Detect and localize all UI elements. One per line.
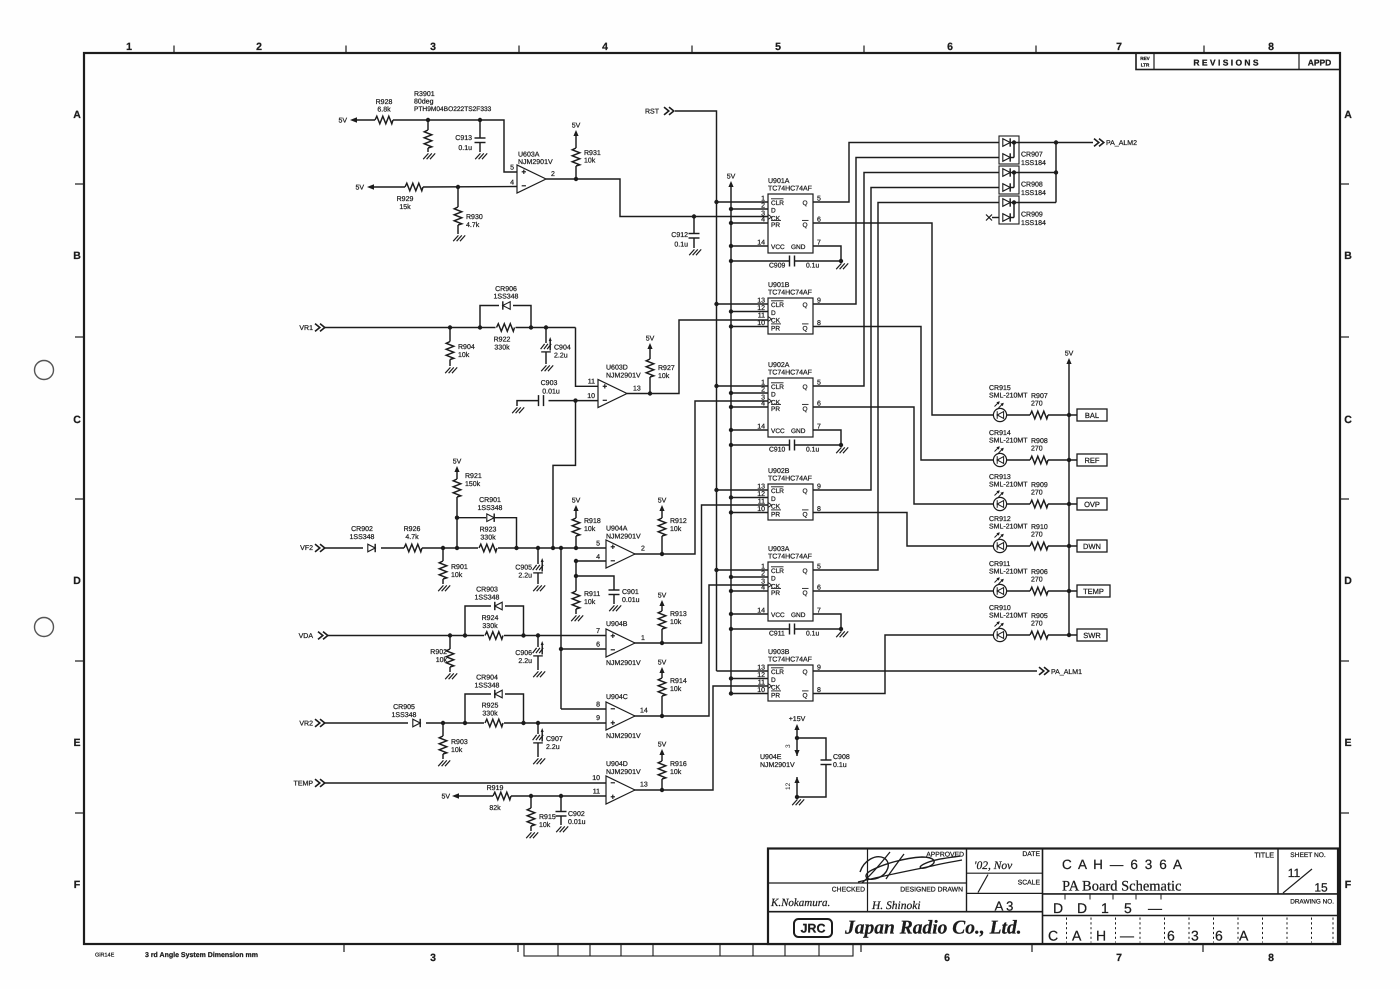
svg-text:6: 6	[944, 952, 950, 964]
svg-text:D: D	[771, 576, 776, 583]
node R904	[448, 325, 452, 329]
svg-text:6: 6	[947, 41, 953, 53]
svg-text:SML-210MT: SML-210MT	[989, 524, 1028, 531]
flip-flop U902B	[768, 484, 813, 520]
title block lines	[768, 849, 1338, 945]
LED CR912 DWN	[993, 539, 1006, 552]
svg-text:6: 6	[596, 642, 600, 649]
svg-text:R904: R904	[458, 344, 475, 351]
wire U901A D	[731, 208, 768, 210]
svg-text:10k: 10k	[670, 618, 682, 626]
ground C913	[475, 153, 480, 159]
wire pin10 stub	[576, 400, 599, 402]
svg-text:8: 8	[1268, 41, 1274, 53]
svg-text:10k: 10k	[658, 372, 670, 380]
resistor R919	[493, 792, 511, 800]
punch hole bottom	[35, 618, 54, 637]
wire to PA_ALM2	[1056, 142, 1093, 144]
node U904E top	[795, 736, 799, 740]
diode CR901	[457, 517, 486, 519]
wire alarm collector	[1055, 143, 1057, 203]
svg-text:U902A: U902A	[768, 362, 790, 369]
svg-text:CLR: CLR	[771, 669, 784, 676]
svg-text:RST: RST	[645, 109, 660, 116]
svg-text:+: +	[611, 543, 616, 552]
svg-text:DATE: DATE	[1022, 851, 1040, 858]
svg-text:TC74HC74AF: TC74HC74AF	[768, 476, 812, 483]
wire U903B Qbar to SWR	[813, 635, 993, 694]
node U904C feed	[559, 546, 563, 550]
svg-text:1SS348: 1SS348	[475, 595, 500, 602]
resistor R901	[442, 548, 444, 561]
svg-text:0.01u: 0.01u	[568, 819, 586, 826]
svg-text:D: D	[771, 392, 776, 399]
svg-text:330k: 330k	[480, 534, 496, 542]
svg-text:13: 13	[633, 386, 641, 393]
svg-text:F: F	[1345, 879, 1352, 891]
svg-text:5V: 5V	[658, 660, 667, 667]
svg-text:VCC: VCC	[771, 244, 785, 251]
U904E pin 3 arrow	[796, 738, 798, 756]
svg-text:1SS184: 1SS184	[1021, 220, 1046, 227]
wire U903A GND	[813, 614, 841, 629]
fold scale strip	[524, 944, 853, 956]
svg-text:+: +	[611, 632, 616, 641]
svg-text:CR902: CR902	[351, 526, 373, 533]
wire U902A Q to CR908	[813, 173, 999, 387]
svg-text:5: 5	[775, 41, 781, 53]
svg-text:CLR: CLR	[771, 568, 784, 575]
bottom border ticks	[343, 944, 345, 952]
svg-text:10k: 10k	[451, 571, 463, 579]
svg-text:5V: 5V	[658, 593, 667, 600]
LED CR911 TEMP	[993, 584, 1006, 597]
svg-text:Q: Q	[803, 200, 808, 207]
resistor R904	[449, 328, 451, 342]
wire U903B D	[731, 678, 768, 680]
svg-text:R922: R922	[494, 337, 511, 344]
wire U901A VCC	[731, 245, 768, 247]
svg-text:CR912: CR912	[989, 516, 1011, 523]
svg-text:C906: C906	[515, 650, 532, 657]
svg-text:TC74HC74AF: TC74HC74AF	[768, 657, 812, 664]
wire VF2 segs	[325, 547, 363, 549]
resistor R930	[457, 187, 459, 207]
svg-text:CR901: CR901	[479, 497, 501, 504]
node CR906 right	[529, 325, 533, 329]
svg-text:VR2: VR2	[299, 721, 313, 728]
resistor R928	[375, 116, 393, 124]
svg-text:D: D	[1344, 575, 1352, 587]
svg-text:270: 270	[1031, 577, 1043, 584]
svg-text:10k: 10k	[584, 157, 596, 165]
flip-flop U901B	[768, 298, 813, 334]
svg-text:CR910: CR910	[989, 605, 1011, 612]
svg-text:2: 2	[551, 171, 555, 178]
svg-text:14: 14	[640, 708, 648, 715]
svg-text:R918: R918	[584, 518, 601, 525]
svg-text:CR906: CR906	[495, 286, 517, 293]
svg-text:Q: Q	[803, 222, 808, 229]
svg-text:150k: 150k	[465, 480, 481, 488]
capacitor C904	[545, 328, 547, 344]
svg-text:2.2u: 2.2u	[546, 744, 560, 751]
svg-text:11: 11	[1288, 866, 1301, 880]
ground C906	[533, 671, 538, 677]
svg-text:11: 11	[588, 379, 595, 386]
svg-text:1SS348: 1SS348	[350, 534, 375, 541]
node C902	[559, 794, 563, 798]
svg-text:R927: R927	[658, 365, 675, 372]
capacitor C906	[537, 636, 539, 648]
svg-text:U903B: U903B	[768, 649, 790, 656]
node R916 output	[660, 788, 664, 792]
svg-text:DESIGNED DRAWN: DESIGNED DRAWN	[900, 887, 963, 894]
resistor R913	[658, 611, 666, 629]
wire CR909 out	[1014, 202, 1056, 204]
wire U902A GND	[813, 430, 841, 445]
svg-text:0.01u: 0.01u	[542, 389, 560, 396]
svg-text:C A H — 6 3 6 A: C A H — 6 3 6 A	[1062, 857, 1184, 872]
capacitor C910	[731, 444, 790, 446]
diode pair CR909	[999, 196, 1019, 224]
left border ticks	[75, 183, 84, 185]
svg-text:'02, Nov: '02, Nov	[974, 860, 1013, 872]
svg-text:DRAWING NO.: DRAWING NO.	[1290, 899, 1334, 906]
svg-text:Q: Q	[803, 384, 808, 391]
ground C904	[541, 365, 546, 371]
svg-text:C913: C913	[455, 135, 472, 142]
ground C912	[689, 249, 694, 255]
top border ticks	[173, 46, 175, 54]
wire U903A PR	[731, 590, 768, 592]
flip-flop U903A	[768, 562, 813, 621]
wire U901A PR	[731, 222, 768, 224]
svg-text:U902B: U902B	[768, 468, 790, 475]
svg-text:U904D: U904D	[606, 761, 628, 768]
wire U904D output to U903B CK	[634, 686, 768, 790]
svg-text:C901: C901	[622, 589, 639, 596]
resistor R902	[449, 636, 451, 650]
node R915	[529, 794, 533, 798]
flip-flop U901A	[768, 194, 813, 253]
resistor R923	[479, 544, 497, 552]
svg-text:10k: 10k	[584, 598, 596, 606]
svg-text:U901B: U901B	[768, 282, 790, 289]
wire U902B D	[731, 497, 768, 499]
svg-text:CR915: CR915	[989, 385, 1011, 392]
ground C910	[836, 447, 841, 453]
svg-text:PR: PR	[771, 512, 780, 519]
node C904	[544, 325, 548, 329]
node divider tap	[551, 546, 555, 550]
ground R904	[445, 367, 450, 373]
wire U901B PR	[731, 326, 768, 328]
svg-text:C902: C902	[568, 811, 585, 818]
svg-text:CR908: CR908	[1021, 182, 1043, 189]
ground R901	[438, 585, 443, 591]
svg-text:1: 1	[126, 41, 132, 53]
svg-text:+: +	[611, 793, 616, 802]
wire VR1 line	[325, 327, 496, 329]
svg-text:R909: R909	[1031, 482, 1048, 489]
svg-text:NJM2901V: NJM2901V	[606, 733, 641, 740]
svg-text:+: +	[522, 168, 527, 177]
wire VR2 segs	[325, 722, 408, 724]
svg-text:10k: 10k	[458, 351, 470, 359]
svg-text:VF2: VF2	[300, 545, 313, 552]
diode CR905	[413, 719, 420, 727]
svg-text:R923: R923	[480, 527, 497, 534]
svg-text:−: −	[611, 705, 616, 714]
wire U904C output to U903A CK	[634, 585, 768, 716]
svg-text:PA_ALM1: PA_ALM1	[1051, 669, 1082, 676]
svg-text:5: 5	[510, 165, 514, 172]
capacitor C901	[609, 589, 620, 591]
svg-text:R926: R926	[404, 526, 421, 533]
capacitor C903	[549, 400, 576, 402]
node R903	[441, 721, 445, 725]
svg-text:0.1u: 0.1u	[674, 242, 688, 249]
svg-text:GND: GND	[791, 244, 806, 251]
resistor R903	[442, 723, 444, 736]
svg-text:H: H	[1096, 928, 1106, 944]
svg-text:C908: C908	[833, 754, 850, 761]
svg-text:TEMP: TEMP	[1083, 587, 1104, 596]
wire U903A VCC	[731, 613, 768, 615]
resistor R912	[658, 518, 666, 536]
svg-text:D: D	[1053, 900, 1063, 916]
capacitor C908	[797, 738, 826, 760]
node U904B minus	[559, 647, 563, 651]
wire U901A Q to CR907	[813, 143, 999, 203]
svg-text:TITLE: TITLE	[1254, 851, 1274, 860]
svg-text:15k: 15k	[399, 203, 411, 211]
svg-text:NJM2901V: NJM2901V	[518, 159, 553, 166]
wire U901B D	[731, 311, 768, 313]
U904E pin 12 arrow	[796, 777, 798, 797]
svg-text:330k: 330k	[482, 622, 498, 630]
svg-text:Q: Q	[803, 302, 808, 309]
ground C903	[512, 407, 517, 413]
ground C909	[836, 263, 841, 269]
svg-text:R928: R928	[376, 99, 393, 106]
svg-text:3 rd Angle System Dimension m: 3 rd Angle System Dimension mm	[145, 951, 258, 959]
wire node to pin5	[480, 120, 517, 172]
svg-text:SML-210MT: SML-210MT	[989, 393, 1028, 400]
node U904E bottom	[795, 795, 799, 799]
svg-text:GND: GND	[791, 612, 806, 619]
ground R930	[453, 235, 458, 241]
capacitor C911	[731, 628, 790, 630]
svg-text:NJM2901V: NJM2901V	[760, 762, 795, 769]
capacitor C905	[537, 548, 539, 564]
svg-text:R906: R906	[1031, 569, 1048, 576]
svg-text:VCC: VCC	[771, 612, 785, 619]
svg-text:−: −	[611, 557, 616, 566]
svg-text:0.1u: 0.1u	[806, 447, 819, 454]
LED CR915 BAL	[993, 408, 1006, 421]
svg-text:SWR: SWR	[1083, 631, 1101, 640]
wire minus input divider	[553, 401, 576, 548]
svg-text:R914: R914	[670, 678, 687, 685]
svg-text:R924: R924	[482, 615, 499, 622]
svg-text:5V: 5V	[727, 174, 736, 181]
wire U904C minus	[561, 708, 606, 710]
node minus corner	[574, 559, 578, 563]
svg-text:R907: R907	[1031, 393, 1048, 400]
svg-text:+: +	[603, 382, 608, 391]
ground R911	[571, 615, 576, 621]
svg-text:2.2u: 2.2u	[518, 658, 532, 665]
LED CR914 REF	[993, 453, 1006, 466]
svg-text:CR913: CR913	[989, 474, 1011, 481]
svg-text:2: 2	[256, 41, 262, 53]
svg-text:PR: PR	[771, 693, 780, 700]
svg-text:270: 270	[1031, 401, 1043, 408]
svg-text:4: 4	[602, 41, 608, 53]
right border ticks	[1340, 183, 1349, 185]
svg-text:11: 11	[593, 789, 600, 796]
svg-text:0.1u: 0.1u	[833, 762, 847, 769]
svg-text:0.01u: 0.01u	[622, 597, 640, 604]
diode pair CR907	[999, 136, 1019, 164]
svg-text:U904E: U904E	[760, 754, 782, 761]
diode pair CR908	[999, 166, 1019, 194]
svg-text:5V: 5V	[646, 336, 655, 343]
svg-text:4: 4	[510, 180, 514, 187]
svg-text:1SS184: 1SS184	[1021, 190, 1046, 197]
wire U903A Q to CR909	[813, 203, 999, 571]
svg-text:SML-210MT: SML-210MT	[989, 569, 1028, 576]
capacitor C902	[560, 796, 562, 812]
svg-text:U904C: U904C	[606, 694, 628, 701]
svg-text:SHEET NO.: SHEET NO.	[1290, 852, 1326, 859]
svg-text:Japan Radio Co., Ltd.: Japan Radio Co., Ltd.	[844, 918, 1022, 939]
svg-text:0.1u: 0.1u	[458, 145, 472, 152]
svg-text:R931: R931	[584, 150, 601, 157]
node C913	[478, 118, 482, 122]
svg-text:CR909: CR909	[1021, 212, 1043, 219]
ground R903	[438, 760, 443, 766]
wire TEMP	[325, 782, 606, 784]
svg-text:C912: C912	[671, 232, 688, 239]
svg-text:SML-210MT: SML-210MT	[989, 482, 1028, 489]
svg-text:PA_ALM2: PA_ALM2	[1106, 140, 1137, 147]
resistor R914	[658, 678, 666, 696]
svg-text:—: —	[1120, 928, 1134, 944]
revisions header	[1136, 53, 1340, 70]
svg-text:R915: R915	[539, 814, 556, 821]
wire R928 to node	[393, 119, 480, 121]
op-amp U904A	[606, 540, 635, 568]
svg-text:R912: R912	[670, 518, 687, 525]
svg-text:8: 8	[1268, 952, 1274, 964]
wire U603A output to U901A CK	[546, 179, 768, 217]
node C906	[536, 633, 540, 637]
svg-text:CR903: CR903	[476, 587, 498, 594]
node R3901 top	[426, 118, 430, 122]
ground C901	[609, 605, 614, 611]
svg-text:U603A: U603A	[518, 152, 540, 159]
svg-text:10: 10	[587, 393, 595, 400]
svg-text:1SS348: 1SS348	[478, 505, 503, 512]
svg-text:3: 3	[1191, 928, 1199, 944]
svg-text:3: 3	[430, 952, 436, 964]
LED CR913 OVP	[993, 497, 1006, 510]
node R911 top	[574, 574, 578, 578]
svg-text:U904B: U904B	[606, 621, 628, 628]
svg-text:U603D: U603D	[606, 365, 628, 372]
svg-text:TEMP: TEMP	[294, 781, 314, 788]
svg-text:10k: 10k	[451, 746, 463, 754]
ground C911	[836, 631, 841, 637]
port PA_ALM1	[1039, 667, 1044, 675]
node R918 bottom	[574, 546, 578, 550]
svg-text:8: 8	[596, 702, 600, 709]
resistor R921	[453, 479, 461, 497]
capacitor C913	[479, 120, 481, 138]
svg-text:JRC: JRC	[800, 922, 825, 936]
svg-text:APPD: APPD	[1308, 57, 1332, 67]
resistor R925	[485, 719, 503, 727]
flip-flop U902A	[768, 378, 813, 437]
svg-text:11: 11	[758, 680, 765, 687]
svg-text:—: —	[1148, 900, 1162, 916]
svg-text:U903A: U903A	[768, 546, 790, 553]
node CR901 right	[514, 546, 518, 550]
wire R919 to pin11	[511, 795, 606, 797]
ground C907	[533, 758, 538, 764]
svg-text:−: −	[611, 779, 616, 788]
node R912 output	[660, 552, 664, 556]
svg-text:CR905: CR905	[393, 704, 415, 711]
svg-text:1SS184: 1SS184	[1021, 160, 1046, 167]
svg-text:4.7k: 4.7k	[405, 533, 419, 541]
svg-text:7: 7	[596, 628, 600, 635]
svg-text:R908: R908	[1031, 438, 1048, 445]
svg-text:C911: C911	[769, 631, 785, 638]
capacitor C912	[693, 217, 695, 234]
svg-text:R905: R905	[1031, 613, 1048, 620]
svg-text:CR907: CR907	[1021, 152, 1043, 159]
resistor R915	[530, 796, 532, 808]
wire U903A Qbar to TEMP LED	[813, 590, 993, 592]
svg-text:R902: R902	[430, 649, 447, 656]
svg-text:GND: GND	[791, 428, 806, 435]
wire U901B CLR	[717, 303, 769, 305]
svg-text:SML-210MT: SML-210MT	[989, 438, 1028, 445]
svg-text:330k: 330k	[494, 344, 510, 352]
svg-text:6.8k: 6.8k	[377, 106, 391, 114]
wire RST vertical	[675, 111, 717, 671]
svg-text:A: A	[73, 109, 81, 121]
diode CR904	[465, 694, 491, 723]
node R914 output	[660, 714, 664, 718]
resistor R924	[485, 632, 503, 640]
ground C905	[533, 585, 538, 591]
svg-text:TC74HC74AF: TC74HC74AF	[768, 186, 812, 193]
node CR903 left	[463, 633, 467, 637]
svg-text:7: 7	[1116, 952, 1122, 964]
svg-text:A 3: A 3	[995, 899, 1014, 914]
LED CR910 SWR	[993, 628, 1006, 641]
resistor R3901 thermistor	[427, 120, 429, 130]
svg-text:SML-210MT: SML-210MT	[989, 613, 1028, 620]
op-amp U603D	[598, 380, 627, 408]
resistor R911	[575, 576, 577, 591]
svg-text:VCC: VCC	[771, 428, 785, 435]
